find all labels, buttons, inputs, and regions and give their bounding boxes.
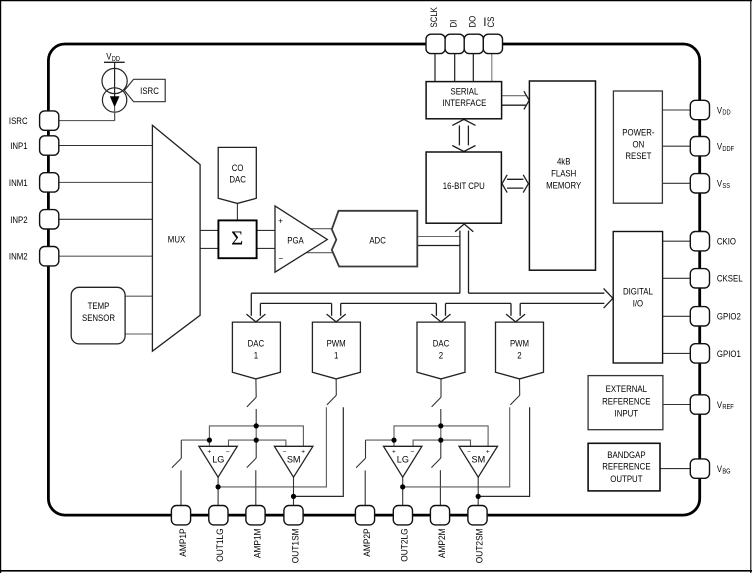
- wire external reference to VREF pin: [663, 404, 690, 406]
- wire DO pin to serial interface: [472, 54, 474, 82]
- wire channel2 line B: [413, 440, 470, 446]
- wire digital io to CKIO pin: [662, 240, 690, 242]
- block MUX: [152, 125, 200, 351]
- svg-text:+: +: [207, 449, 211, 456]
- pin OUT1SM: [284, 506, 303, 525]
- ISRC tag label: [124, 79, 165, 101]
- wire INM1 to MUX: [59, 181, 152, 183]
- junction dots channel 1: [254, 423, 259, 428]
- pin AMP1P: [171, 506, 190, 525]
- wire SM1 output feedback to PWM1 right contact: [294, 407, 344, 496]
- wire PGA to ADC lower: [300, 252, 339, 254]
- svg-text:CO: CO: [232, 163, 244, 174]
- svg-text:AMP2M: AMP2M: [437, 528, 448, 558]
- wire INP2 to MUX: [59, 218, 152, 220]
- wire TEMP SENSOR to MUX upper: [125, 295, 152, 297]
- svg-text:CKSEL: CKSEL: [717, 274, 743, 285]
- pin VREF: [690, 395, 709, 414]
- block DAC1 tag: [232, 322, 280, 379]
- wire channel1 line A: [209, 426, 303, 446]
- svg-text:DIGITAL: DIGITAL: [623, 286, 653, 297]
- wire TEMP SENSOR to MUX lower: [125, 333, 152, 335]
- svg-text:INM2: INM2: [9, 252, 28, 263]
- pin GPIO2: [690, 307, 709, 326]
- svg-text:EXTERNAL: EXTERNAL: [606, 384, 648, 395]
- svg-text:+: +: [392, 449, 396, 456]
- pin AMP2M: [430, 506, 449, 525]
- wire PWM2 output with switch: [519, 379, 521, 395]
- wire SM2 output to OUT2SM pin: [477, 477, 479, 505]
- svg-text:REFERENCE: REFERENCE: [602, 462, 650, 473]
- op-amp SM1: [274, 446, 313, 477]
- svg-text:CKIO: CKIO: [717, 237, 736, 248]
- svg-text:FLASH: FLASH: [551, 168, 576, 179]
- svg-text:OUT2SM: OUT2SM: [474, 528, 485, 563]
- pin INM1: [40, 173, 59, 192]
- wire power-on reset to VSS pin: [663, 182, 691, 184]
- svg-text:2: 2: [439, 350, 443, 361]
- svg-text:GPIO1: GPIO1: [717, 349, 741, 360]
- block sigma summer: [218, 220, 256, 258]
- svg-text:AMP1P: AMP1P: [178, 528, 189, 556]
- wire MUX to sigma upper: [200, 229, 218, 231]
- svg-text:INP2: INP2: [10, 215, 27, 226]
- wire CO DAC to sigma: [236, 204, 238, 221]
- wire digital io to GPIO2 pin: [662, 315, 690, 317]
- wire LG2 output to OUT2LG pin: [402, 477, 404, 505]
- pin DO: [464, 34, 483, 53]
- svg-text:REFERENCE: REFERENCE: [602, 396, 650, 407]
- svg-text:GPIO2: GPIO2: [717, 312, 741, 323]
- svg-text:INP1: INP1: [10, 141, 27, 152]
- svg-text:16-BIT CPU: 16-BIT CPU: [443, 181, 485, 192]
- op-amp LG1: [199, 446, 237, 477]
- wire AMP2P pin with switch to line B: [366, 439, 395, 441]
- svg-text:SCLK: SCLK: [429, 7, 440, 28]
- svg-text:LG: LG: [212, 454, 224, 465]
- svg-text:OUT2LG: OUT2LG: [400, 528, 411, 561]
- op-amp PGA: [275, 206, 327, 272]
- wire bandgap reference to VBG pin: [660, 468, 690, 470]
- pin VBG: [690, 459, 709, 478]
- svg-text:−: −: [411, 449, 415, 456]
- svg-text:+: +: [278, 216, 283, 225]
- svg-text:DD: DD: [112, 56, 120, 63]
- pin INM2: [40, 247, 59, 266]
- op-amp SM2: [459, 446, 498, 477]
- wire SM1 output to OUT1SM pin: [293, 477, 295, 505]
- bus line A right: [469, 292, 605, 294]
- pin VDD: [690, 100, 709, 119]
- double arrow CPU to flash: [507, 178, 523, 180]
- svg-text:PWM: PWM: [327, 339, 346, 350]
- svg-text:DAC: DAC: [433, 339, 450, 350]
- outer frame: [0, 0, 752, 2]
- svg-text:DO: DO: [467, 16, 478, 28]
- svg-text:PWM: PWM: [510, 339, 529, 350]
- VDD supply label and bar: [104, 61, 125, 63]
- arrow serial interface to flash: [502, 95, 526, 97]
- pin VSS: [690, 174, 709, 193]
- svg-text:SM: SM: [287, 454, 301, 465]
- wire channel2 line A: [394, 426, 488, 446]
- junction dots channel 2: [438, 423, 443, 428]
- pin GPIO1: [690, 344, 709, 363]
- wire AMP2M with switch: [440, 440, 442, 458]
- bus drop and arrow into DAC1: [250, 293, 252, 316]
- wire INM2 to MUX: [59, 255, 152, 257]
- svg-text:4kB: 4kB: [557, 156, 571, 167]
- svg-text:I/O: I/O: [633, 298, 643, 309]
- wire INP1 to MUX: [59, 145, 152, 147]
- op-amp LG2: [384, 446, 422, 477]
- svg-text:TEMP: TEMP: [88, 301, 110, 312]
- svg-text:+: +: [486, 449, 490, 456]
- wire SCLK pin to serial interface: [434, 54, 436, 82]
- pin CKIO: [690, 232, 709, 251]
- bus arrow into CPU: [459, 237, 461, 294]
- pin CKSEL: [690, 269, 709, 288]
- svg-text:−: −: [226, 449, 230, 456]
- wire digital io to CKSEL pin: [662, 277, 690, 279]
- svg-text:SERIAL: SERIAL: [451, 86, 479, 97]
- pin DI: [445, 34, 464, 53]
- svg-text:AMP2P: AMP2P: [362, 528, 373, 556]
- bus arrow into digital io: [604, 289, 613, 299]
- block ADC: [332, 211, 418, 267]
- svg-text:DAC: DAC: [229, 174, 246, 185]
- svg-text:Σ: Σ: [231, 229, 243, 250]
- wire MUX to sigma lower: [200, 247, 218, 249]
- wire DAC1 output with switch: [255, 379, 257, 397]
- svg-text:DAC: DAC: [248, 339, 265, 350]
- current source arrow: [114, 63, 116, 100]
- pin VDDF: [690, 137, 709, 156]
- block PWM1 tag: [312, 322, 360, 379]
- block BANDGAP REFERENCE OUTPUT: [588, 443, 660, 491]
- current source ISRC circles: [102, 68, 127, 93]
- pin OUT2LG: [393, 506, 412, 525]
- wire DI pin to serial interface: [454, 54, 456, 82]
- wire LG1 output to OUT1LG pin: [217, 477, 219, 505]
- wire line A junction to LG1 plus input: [208, 440, 210, 446]
- wire SM2 output feedback to PWM2 right contact: [478, 407, 529, 496]
- bus line A left: [251, 292, 460, 294]
- bus drop and arrow into DAC2: [435, 303, 437, 315]
- pin SCLK: [426, 34, 445, 53]
- svg-text:SS: SS: [722, 183, 730, 190]
- wire digital io to GPIO1 pin: [662, 352, 690, 354]
- svg-text:INM1: INM1: [9, 178, 28, 189]
- pin OUT1LG: [209, 506, 228, 525]
- svg-text:LG: LG: [397, 454, 409, 465]
- block SERIAL INTERFACE: [426, 82, 502, 119]
- wire ISRC pin to current source: [59, 112, 115, 121]
- block CO DAC tag: [218, 147, 256, 203]
- block TEMP SENSOR: [71, 287, 125, 344]
- bus drop and arrow into PWM1: [331, 303, 333, 315]
- svg-text:OUTPUT: OUTPUT: [610, 474, 642, 485]
- wire LG1 output feedback to PWM1 left contact: [218, 407, 326, 487]
- wire DAC1 node to line B: [255, 426, 257, 440]
- pin INP2: [40, 210, 59, 229]
- svg-text:OUT1LG: OUT1LG: [215, 528, 226, 561]
- svg-text:INTERFACE: INTERFACE: [442, 98, 486, 109]
- svg-text:REF: REF: [722, 404, 733, 411]
- wire line A junction to LG2 plus input: [393, 440, 395, 446]
- block DAC2 tag: [417, 322, 465, 379]
- svg-text:+: +: [301, 449, 305, 456]
- svg-text:POWER-: POWER-: [622, 127, 654, 138]
- svg-text:ISRC: ISRC: [9, 116, 28, 127]
- block POWER-ON RESET: [613, 91, 662, 203]
- svg-text:RESET: RESET: [625, 151, 651, 162]
- block 4kB FLASH MEMORY: [529, 81, 595, 270]
- wire power-on reset to VDD pin: [663, 109, 691, 111]
- svg-text:2: 2: [517, 350, 521, 361]
- svg-text:ON: ON: [633, 139, 645, 150]
- svg-text:DI: DI: [448, 20, 459, 28]
- pin INP1: [40, 136, 59, 155]
- wire AMP1M with switch: [255, 440, 257, 458]
- svg-text:DDF: DDF: [722, 146, 734, 153]
- bus ADC to CPU pair: [417, 236, 460, 238]
- svg-text:1: 1: [254, 350, 258, 361]
- block 16-BIT CPU: [426, 152, 501, 223]
- double arrow serial interface to CPU: [458, 126, 460, 146]
- svg-text:AMP1M: AMP1M: [252, 528, 263, 558]
- svg-text:MEMORY: MEMORY: [546, 180, 582, 191]
- svg-text:PGA: PGA: [287, 235, 304, 246]
- wire AMP1P pin with switch to line B: [181, 439, 209, 441]
- svg-text:SENSOR: SENSOR: [82, 313, 115, 324]
- pin AMP2P: [355, 506, 374, 525]
- svg-text:ADC: ADC: [369, 236, 386, 247]
- svg-text:OUT1SM: OUT1SM: [290, 528, 301, 563]
- svg-text:INPUT: INPUT: [615, 408, 639, 419]
- block DIGITAL IO: [613, 232, 662, 364]
- wire CS pin to serial interface: [491, 54, 493, 82]
- wire DAC2 output with switch: [440, 379, 442, 397]
- pin CS: [483, 34, 502, 53]
- svg-text:DD: DD: [722, 110, 730, 117]
- wire DAC2 node to line B: [440, 426, 442, 440]
- chip body outline: [48, 44, 699, 515]
- block EXTERNAL REFERENCE INPUT: [588, 376, 663, 430]
- bus drop and arrow into PWM2: [510, 303, 512, 315]
- pin AMP1M: [246, 506, 265, 525]
- wire LG2 output feedback to PWM2 left contact: [403, 407, 510, 487]
- pin OUT2SM: [468, 506, 487, 525]
- svg-text:ISRC: ISRC: [140, 86, 159, 97]
- bus line B: [260, 302, 331, 304]
- svg-text:CS: CS: [486, 17, 497, 28]
- svg-text:BANDGAP: BANDGAP: [607, 450, 645, 461]
- pin ISRC: [40, 111, 59, 130]
- wire channel1 line B: [229, 440, 286, 446]
- wire PWM1 output with switch: [335, 379, 337, 395]
- block PWM2 tag: [496, 322, 544, 379]
- svg-text:−: −: [279, 254, 284, 263]
- wire power-on reset to VDDF pin: [663, 145, 691, 147]
- wire PGA to ADC upper: [300, 228, 339, 230]
- svg-text:SM: SM: [472, 454, 486, 465]
- svg-text:BG: BG: [722, 468, 730, 475]
- wire sigma to PGA upper: [257, 229, 275, 231]
- wire sigma to PGA lower: [257, 247, 275, 249]
- svg-text:1: 1: [334, 350, 338, 361]
- svg-text:MUX: MUX: [168, 235, 186, 246]
